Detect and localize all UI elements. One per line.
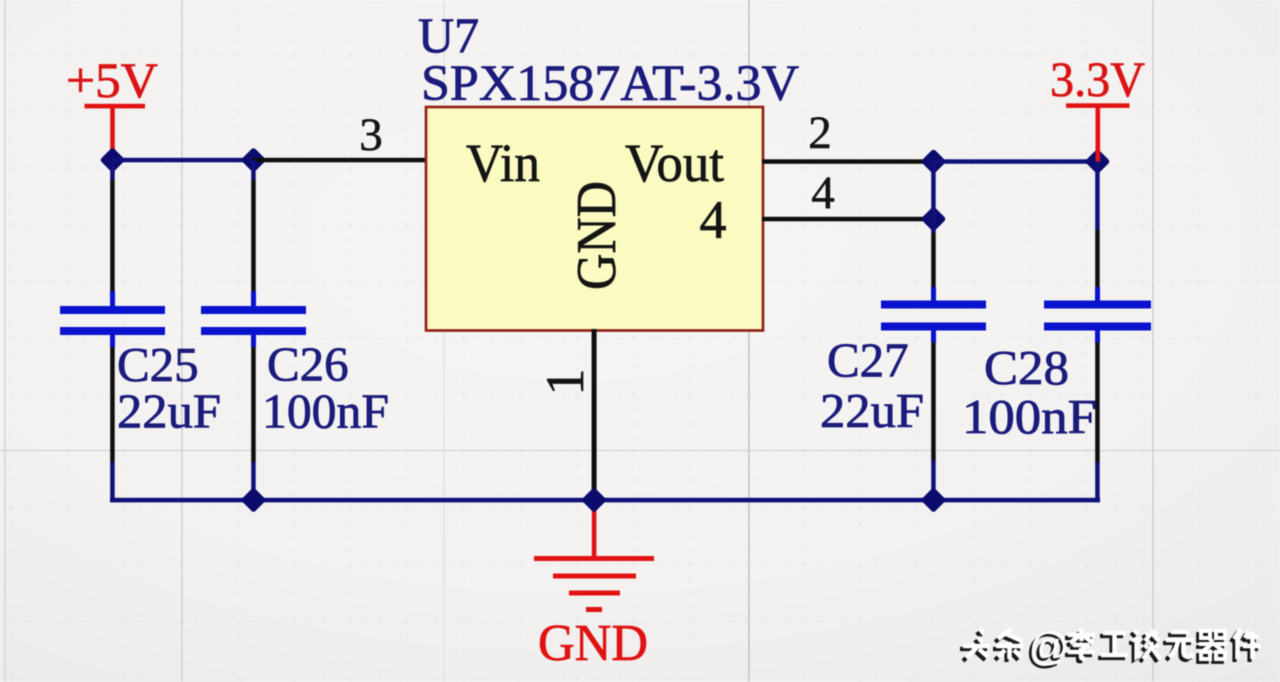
svg-text:C28: C28 — [984, 340, 1069, 395]
U7 pin 4 wire (black) — [762, 217, 933, 222]
svg-text:4: 4 — [700, 190, 727, 250]
capacitor C25 lead bottom (black) — [110, 347, 115, 462]
svg-text:SPX1587AT-3.3V: SPX1587AT-3.3V — [421, 56, 799, 112]
capacitor C25 lead bottom (blue stub) — [110, 462, 115, 500]
capacitor C28 lead bottom (black) — [1095, 343, 1100, 463]
svg-text:C27: C27 — [827, 333, 909, 388]
svg-text:4: 4 — [811, 167, 835, 219]
U7 pin 1 wire (black vertical) — [592, 329, 597, 500]
svg-text:2: 2 — [808, 107, 832, 159]
power port 3.3V bar — [1066, 103, 1130, 108]
capacitor C26 lead top (blue stub) — [251, 160, 256, 180]
capacitor C28 lead bottom (blue stub) — [1095, 462, 1100, 500]
svg-text:100nF: 100nF — [962, 389, 1097, 444]
capacitor C27 lead bottom (blue stub) — [931, 460, 936, 500]
ground bar 3 — [569, 591, 620, 596]
char gong — [1098, 633, 1128, 658]
capacitor C26 lead bottom (bright blue) — [251, 335, 256, 347]
char li — [1065, 629, 1095, 661]
wire node B to U7 pin 3 (black) — [253, 158, 425, 163]
char qi — [1196, 631, 1227, 662]
op IC U7 body — [426, 107, 763, 331]
svg-text:Vout: Vout — [625, 133, 724, 193]
ground bar 1 — [534, 556, 654, 561]
capacitor C27 lead bottom (black) — [931, 343, 936, 461]
node D junction (pin4 tie) — [925, 210, 943, 228]
ground bar 2 — [553, 574, 636, 579]
capacitor C25 plates — [60, 306, 165, 314]
capacitor C28 plates — [1044, 301, 1151, 309]
capacitor C28 lead top (black) — [1095, 230, 1100, 287]
power port +5V bar — [85, 104, 146, 109]
svg-text:Vin: Vin — [466, 133, 540, 193]
node C junction (pin2 / C27 / 3.3V net) — [925, 153, 943, 171]
capacitor C26 plates — [201, 306, 306, 314]
capacitor C27 lead bottom (bright blue) — [931, 331, 936, 343]
capacitor C26 lead top (black) — [251, 180, 256, 292]
svg-text:3: 3 — [359, 109, 383, 161]
svg-text:GND: GND — [566, 181, 628, 290]
svg-text:3.3V: 3.3V — [1050, 51, 1145, 107]
svg-text:22uF: 22uF — [820, 383, 924, 438]
capacitor C27 plates — [881, 301, 986, 309]
char tiao — [993, 629, 1023, 662]
capacitor C25 lead top (blue stub) — [110, 160, 115, 180]
capacitor C25 lead top (bright blue) — [110, 291, 115, 306]
svg-text:GND: GND — [538, 615, 648, 672]
wire node C to node D (blue vertical) — [931, 162, 936, 220]
capacitor C25 lead bottom (bright blue) — [110, 335, 115, 347]
node A junction (+5V / C25 / wire) — [104, 151, 122, 169]
char jian — [1231, 629, 1261, 662]
capacitor C28 lead top (bright blue) — [1095, 287, 1100, 301]
char at-sign — [1026, 625, 1070, 672]
capacitor C26 lead top (bright blue) — [251, 291, 256, 306]
svg-text:22uF: 22uF — [117, 384, 221, 439]
capacitor C25 lead top (black) — [110, 180, 115, 292]
node H junction (C27 to bus) — [925, 491, 943, 509]
svg-text:1: 1 — [535, 369, 595, 396]
power port +5V stem — [110, 106, 115, 160]
capacitor C28 lead top (blue from node E) — [1095, 162, 1100, 231]
char tan — [1129, 629, 1160, 662]
ground bus wire (blue horizontal) — [110, 498, 1100, 503]
capacitor C27 lead top (black) — [931, 233, 936, 287]
svg-text:U7: U7 — [418, 7, 479, 63]
wire node A to node B (blue) — [112, 158, 254, 163]
capacitor C27 lead top (blue stub) — [931, 219, 936, 233]
ground stem (red) — [592, 500, 597, 559]
wire node C to node E (blue) — [934, 159, 1098, 164]
node G junction (pin1 / GND to bus) — [585, 491, 603, 509]
ground bar 4 — [586, 607, 602, 612]
capacitor C26 lead bottom (black) — [251, 347, 256, 462]
svg-text:@: @ — [1029, 625, 1070, 669]
char yuan — [1163, 632, 1194, 660]
capacitor C27 lead top (bright blue) — [931, 287, 936, 301]
char tou — [960, 629, 990, 661]
power port 3.3V stem — [1096, 106, 1101, 162]
svg-text:+5V: +5V — [66, 52, 158, 108]
node F junction (C26 to bus) — [245, 491, 263, 509]
capacitor C26 lead bottom (blue stub) — [251, 462, 256, 500]
svg-text:100nF: 100nF — [262, 384, 389, 439]
U7 pin 2 wire (black) — [762, 159, 933, 164]
capacitor C28 lead bottom (bright blue) — [1095, 331, 1100, 343]
node B junction (C26 / pin3 wire) — [245, 151, 263, 169]
node E junction (3.3V / C28) — [1089, 153, 1107, 171]
